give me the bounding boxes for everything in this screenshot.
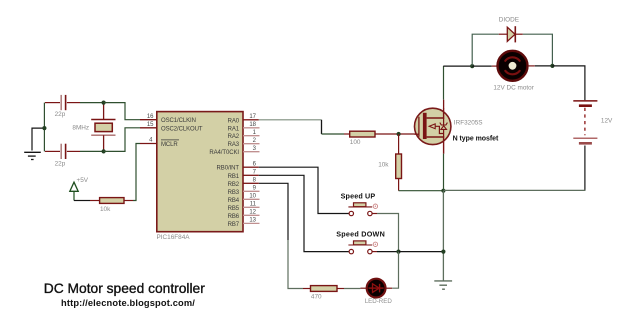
svg-text:470: 470 — [311, 293, 322, 300]
U1 right pin 2 RA3 — [228, 138, 260, 148]
svg-text:RA3: RA3 — [228, 142, 240, 148]
svg-text:13: 13 — [249, 218, 256, 224]
capacitor C1 22p top — [45, 95, 80, 118]
wire battery bottom to source row — [443, 146, 585, 191]
resistor R4 470 — [311, 286, 338, 301]
svg-text:10k: 10k — [100, 206, 111, 213]
svg-text:MCLR: MCLR — [161, 142, 178, 148]
svg-text:Speed DOWN: Speed DOWN — [336, 230, 385, 239]
wire Speed UP right to node H column — [372, 214, 398, 252]
svg-text:RB6: RB6 — [228, 214, 240, 220]
push button Speed DOWN — [336, 230, 385, 254]
wire left vertical between 22p caps — [43, 103, 45, 152]
node A junction top — [102, 101, 106, 105]
U1 left pin 15 OSC2/CLKOUT — [140, 122, 203, 132]
svg-text:RB2: RB2 — [228, 182, 240, 188]
svg-text:17: 17 — [249, 114, 256, 120]
ground (left) — [24, 152, 41, 159]
svg-text:12V: 12V — [601, 117, 613, 124]
U1 right pin 7 RB1 — [228, 170, 259, 180]
resistor R1 100 — [350, 131, 375, 146]
U1 right pin 9 RB3 — [228, 186, 260, 196]
wire cap2 to node B — [80, 150, 104, 152]
wire ground tap left — [32, 128, 44, 150]
U1 right pin 6 RB0/INT — [217, 161, 259, 171]
wire drain up to motor row — [443, 66, 472, 109]
crystal X1 8MHz — [72, 103, 115, 152]
resistor R3 10k — [100, 198, 124, 213]
transistor Q1 IRF3205S mosfet — [415, 108, 499, 154]
svg-text:RB5: RB5 — [228, 206, 240, 212]
svg-text:RB0/INT: RB0/INT — [217, 166, 240, 172]
U1 right pin 10 RB4 — [228, 194, 260, 204]
wire R1 to gate node D — [375, 133, 415, 135]
svg-text:22p: 22p — [55, 111, 66, 118]
node C junction left — [42, 126, 46, 130]
PIC16F84A U1 body — [157, 112, 244, 241]
power +5V terminal — [70, 177, 89, 201]
svg-text:OSC1/CLKIN: OSC1/CLKIN — [161, 118, 196, 124]
node G junction motor right — [550, 64, 554, 68]
svg-text:+5V: +5V — [77, 177, 89, 184]
U1 left pin 16 OSC1/CLKIN — [140, 114, 196, 124]
wire diode branch right — [523, 34, 553, 66]
push button Speed UP — [341, 191, 378, 215]
svg-text:N type mosfet: N type mosfet — [453, 135, 499, 142]
wire cap1 to node A — [80, 102, 104, 104]
node H junction — [396, 250, 400, 254]
node I junction ground column — [441, 250, 445, 254]
svg-text:DC Motor speed controller: DC Motor speed controller — [44, 281, 205, 296]
svg-text:RB7: RB7 — [228, 222, 240, 228]
svg-text:RA4/T0CKI: RA4/T0CKI — [209, 150, 239, 156]
wire pin8 RB2 to R4 — [259, 183, 311, 288]
LED D2 LED-RED — [365, 279, 393, 306]
wire R4 to LED — [337, 287, 367, 289]
wire motor left pin — [472, 65, 497, 67]
node D junction gate — [397, 132, 401, 136]
wire motor right pin — [528, 65, 552, 67]
diode D1 — [499, 17, 523, 43]
svg-text:16: 16 — [147, 114, 154, 120]
subtitle url text — [61, 298, 195, 308]
ground (right) — [434, 281, 452, 289]
wire Speed DOWN right to node H — [372, 251, 398, 253]
U1 right pin 17 RA0 — [228, 114, 259, 124]
U1 left pin 4 MCLR — [140, 138, 179, 148]
svg-text:12: 12 — [249, 210, 256, 216]
svg-text:LED-RED: LED-RED — [365, 298, 393, 305]
svg-text:12V DC motor: 12V DC motor — [493, 85, 534, 92]
svg-text:100: 100 — [350, 139, 361, 146]
svg-text:Speed UP: Speed UP — [341, 191, 376, 200]
svg-text:http://elecnote.blogspot.com/: http://elecnote.blogspot.com/ — [61, 298, 195, 308]
U1 right pin 1 RA2 — [228, 130, 260, 140]
wire node A to OSC1 pin16 — [104, 103, 140, 120]
U1 right pin 8 RB2 — [228, 178, 259, 188]
U1 right pin 11 RB5 — [228, 202, 260, 212]
svg-text:11: 11 — [250, 202, 257, 208]
svg-text:RB1: RB1 — [228, 174, 240, 180]
svg-text:10k: 10k — [378, 162, 389, 169]
battery BT1 12V — [573, 101, 613, 143]
svg-text:8MHz: 8MHz — [72, 124, 89, 131]
svg-text:RA2: RA2 — [228, 134, 240, 140]
wire node H to ground column — [399, 251, 444, 253]
U1 right pin 12 RB6 — [228, 210, 260, 220]
svg-text:IRF3205S: IRF3205S — [454, 119, 483, 126]
svg-text:DIODE: DIODE — [499, 17, 519, 24]
title text — [44, 281, 205, 296]
U1 right pin 13 RB7 — [228, 218, 260, 228]
svg-text:RB4: RB4 — [228, 198, 240, 204]
wire diode branch left — [472, 34, 499, 66]
wire +5V to R3 — [74, 200, 100, 202]
wire node D to R2 — [398, 134, 400, 154]
svg-text:RA0: RA0 — [228, 118, 240, 124]
svg-text:OSC2/CLKOUT: OSC2/CLKOUT — [161, 126, 203, 132]
svg-text:18: 18 — [249, 122, 256, 128]
svg-text:RA1: RA1 — [228, 126, 240, 132]
wire R3 to MCLR pin4 — [124, 144, 140, 201]
U1 right pin 3 RA4/T0CKI — [209, 146, 259, 156]
capacitor C2 22p bottom — [45, 144, 80, 168]
node B junction bottom — [102, 149, 106, 153]
wire pin7 RB1 to Speed DOWN — [259, 175, 349, 251]
svg-text:15: 15 — [147, 122, 154, 128]
svg-text:10: 10 — [249, 194, 256, 200]
U1 right pin 18 RA1 — [228, 122, 260, 132]
wire motor right to battery top — [552, 66, 585, 100]
wire LED right up to node H — [386, 252, 399, 289]
svg-text:PIC16F84A: PIC16F84A — [157, 234, 191, 241]
wire node B to OSC2 pin15 — [104, 128, 140, 152]
svg-text:RB3: RB3 — [228, 190, 240, 196]
resistor R2 10k — [378, 154, 401, 179]
wire pin6 RB0 to Speed UP — [259, 167, 349, 213]
svg-text:22p: 22p — [55, 160, 66, 167]
wire R2 to source row — [399, 179, 444, 191]
wire RA0 to R1 — [259, 120, 350, 134]
node E junction source row — [441, 189, 445, 193]
motor M1 12V DC motor — [493, 51, 534, 92]
wire source row down to ground — [442, 154, 444, 281]
node F junction motor left — [470, 64, 474, 68]
